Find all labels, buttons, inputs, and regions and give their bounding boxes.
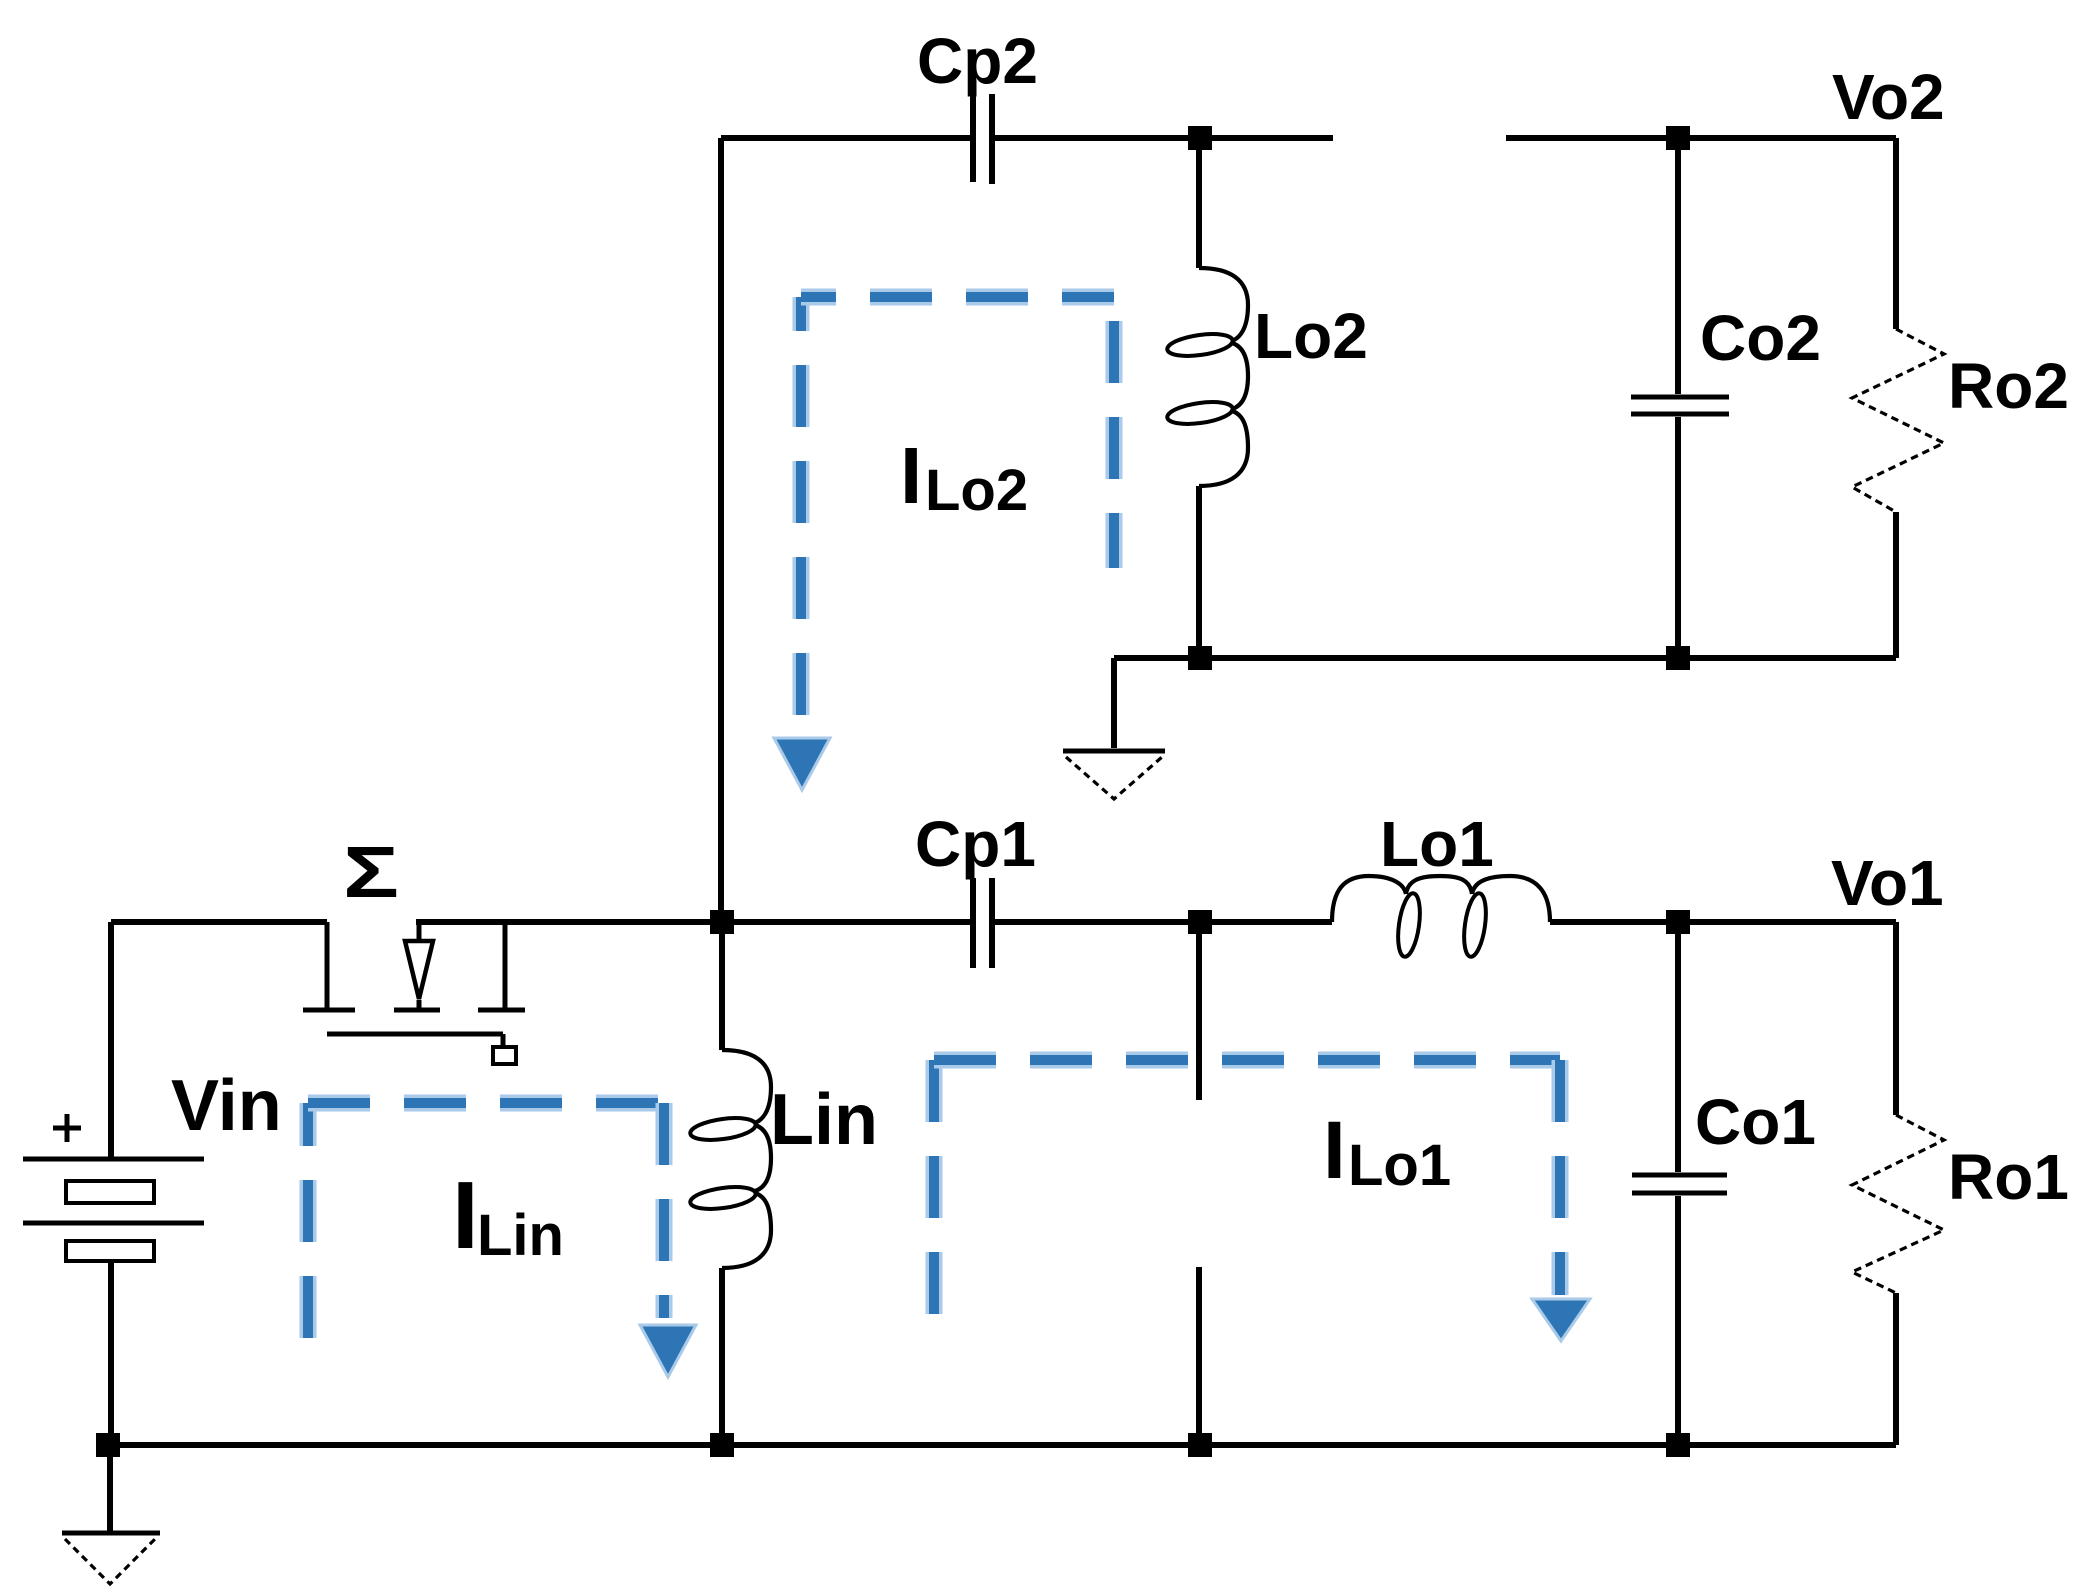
svg-text:Lo1: Lo1 (1348, 1133, 1451, 1198)
svg-text:I: I (452, 1162, 479, 1269)
svg-text:Ro1: Ro1 (1948, 1141, 2069, 1213)
svg-text:Vo2: Vo2 (1832, 61, 1945, 133)
svg-text:Vin: Vin (171, 1066, 282, 1146)
svg-text:Lin: Lin (770, 1080, 878, 1160)
svg-text:I: I (1323, 1105, 1346, 1196)
svg-text:Cp2: Cp2 (917, 25, 1038, 97)
svg-text:Ro2: Ro2 (1948, 350, 2069, 422)
svg-text:Lin: Lin (477, 1203, 564, 1268)
svg-text:Cp1: Cp1 (915, 808, 1036, 880)
svg-text:Σ: Σ (343, 833, 399, 913)
svg-text:Lo2: Lo2 (1254, 300, 1368, 372)
svg-text:Vo1: Vo1 (1831, 847, 1944, 919)
svg-text:Co2: Co2 (1700, 302, 1821, 374)
svg-text:Lo2: Lo2 (925, 458, 1028, 523)
svg-text:I: I (900, 431, 922, 520)
svg-text:Lo1: Lo1 (1380, 808, 1494, 880)
svg-text:Co1: Co1 (1695, 1086, 1816, 1158)
